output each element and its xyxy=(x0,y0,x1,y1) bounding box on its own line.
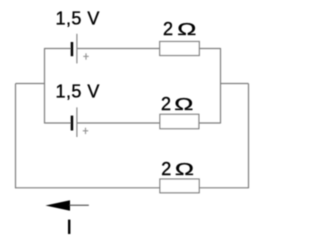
svg-text:Ω: Ω xyxy=(177,19,196,39)
wire: left branch connector vertical (x=44.5, between branch 1 and branch 2) xyxy=(44,48,46,124)
wire: bottom return wire xyxy=(15,187,249,189)
battery V2 negative plate (thick short bar) xyxy=(71,116,74,131)
wire: branch 1 battery to resistor R1 xyxy=(77,48,160,50)
current arrow shaft xyxy=(69,204,89,206)
wire: left bus vertical (x=15.5, y 83.5-187.8) xyxy=(15,84,17,189)
value label R1 2 Ω xyxy=(163,19,196,39)
wire: branch 1 left segment to battery V1 xyxy=(45,48,72,50)
value label R3 2 Ω xyxy=(161,159,194,179)
wire: right branch connector vertical (x=220.5) xyxy=(220,48,222,124)
value label R2 2 Ω xyxy=(161,94,193,114)
battery V1 plus polarity mark xyxy=(83,53,88,59)
svg-text:2: 2 xyxy=(161,94,171,114)
resistor R2 body xyxy=(160,114,199,128)
svg-text:1,5 V: 1,5 V xyxy=(56,8,100,28)
battery V1 positive plate (thin tall line) xyxy=(76,34,78,64)
svg-text:Ω: Ω xyxy=(175,159,194,179)
wire: right mid horizontal junction xyxy=(221,83,249,85)
wire: left mid horizontal junction to branch connector xyxy=(16,83,46,85)
svg-text:Ω: Ω xyxy=(174,94,193,114)
current arrow head (points left) xyxy=(45,200,70,210)
current label I xyxy=(68,220,70,234)
resistor R3 body xyxy=(160,179,199,193)
wire: right bus vertical (x=248.5) xyxy=(248,84,250,189)
svg-text:2: 2 xyxy=(163,19,173,39)
wire: branch 2 left segment to battery V2 xyxy=(45,122,72,124)
wire: branch 2 resistor R2 to right connector xyxy=(199,122,221,124)
battery V1 negative plate (thick short bar) xyxy=(71,42,74,56)
resistor R1 body xyxy=(160,42,200,56)
battery V2 plus polarity mark xyxy=(83,128,88,134)
svg-text:1,5 V: 1,5 V xyxy=(56,81,100,101)
wire: branch 2 battery to resistor R2 xyxy=(77,122,160,124)
wire: branch 1 resistor R1 to right connector xyxy=(199,48,220,50)
svg-text:2: 2 xyxy=(161,159,171,179)
battery V2 positive plate (thin tall line) xyxy=(76,107,78,137)
